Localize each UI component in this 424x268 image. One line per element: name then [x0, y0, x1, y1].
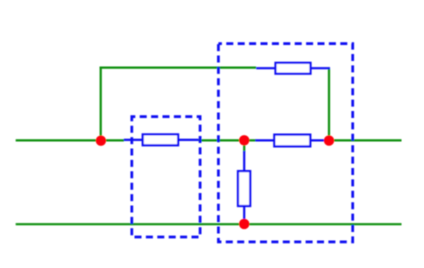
wire: bottom horizontal rail: [16, 223, 402, 225]
wire: right vertical from top branch down to node C: [328, 69, 330, 141]
wire: stub from node B down to R3 lead: [243, 140, 245, 152]
wire: top horizontal branch: [100, 66, 257, 68]
resistor R1 (left, horizontal, inside left dashed box): [124, 134, 199, 145]
node B junction dot: [239, 135, 249, 145]
right dashed selection box: [218, 44, 352, 242]
resistor R3 (vertical, inside right dashed box): [238, 151, 250, 224]
resistor R2 (top, horizontal, inside right dashed box): [256, 63, 330, 74]
wire: middle horizontal between R1 and node B: [199, 139, 257, 141]
wire: middle horizontal right of node C: [329, 139, 402, 141]
wire: vertical from node A up to top branch: [100, 67, 102, 141]
node C junction dot: [324, 135, 334, 145]
node A junction dot: [96, 136, 106, 146]
node D junction dot (bottom rail): [239, 219, 249, 229]
left dashed selection box: [132, 117, 200, 237]
resistor R4 (middle, horizontal, inside right dashed box): [255, 135, 329, 147]
wire: middle horizontal left segment: [16, 139, 124, 141]
